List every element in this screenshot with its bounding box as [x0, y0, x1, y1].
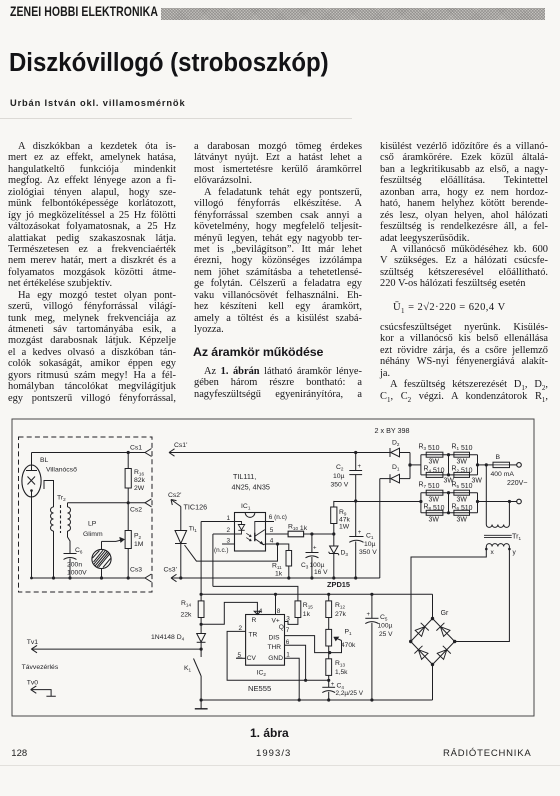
potentiometer P1 470k [326, 629, 332, 646]
svg-text:IC1: IC1 [241, 503, 251, 511]
pin 4 wire [266, 543, 278, 545]
svg-text:200n: 200n [67, 562, 82, 569]
node Cs1p / HV rail [169, 449, 175, 456]
wire pin1 GND [285, 658, 300, 700]
svg-text:1N4148 D4: 1N4148 D4 [151, 634, 185, 642]
svg-text:3W: 3W [472, 477, 483, 484]
svg-text:3W: 3W [429, 517, 440, 524]
svg-text:2,2µ/25 V: 2,2µ/25 V [336, 690, 364, 697]
svg-text:4N25, 4N35: 4N25, 4N35 [232, 483, 270, 492]
svg-text:R9: R9 [339, 509, 347, 517]
dashed lamp-unit box [19, 437, 153, 592]
svg-text:R11: R11 [272, 563, 282, 571]
svg-text:1000V: 1000V [67, 570, 87, 577]
pin 3 stub (n.c.) [222, 543, 235, 545]
mains transformer Tr1 [485, 465, 487, 525]
mains terminal 1 [517, 463, 522, 468]
wire [101, 569, 103, 578]
wire bridge plus to 12V rail [432, 594, 434, 618]
svg-text:350 V: 350 V [359, 549, 377, 556]
svg-text:C3: C3 [301, 562, 309, 570]
svg-text:C6: C6 [75, 547, 83, 555]
svg-text:220V~: 220V~ [507, 480, 527, 487]
resistor R9 47k 1W [333, 501, 335, 507]
svg-text:R15: R15 [303, 602, 313, 610]
svg-text:R6 510: R6 510 [452, 504, 473, 513]
svg-text:+: + [358, 530, 362, 536]
svg-text:3W: 3W [457, 458, 468, 465]
svg-text:R14: R14 [181, 600, 191, 608]
node Cs2 [68, 502, 146, 504]
svg-text:1W: 1W [339, 524, 350, 531]
resistor R12 27k [328, 594, 330, 601]
capacitor C3 100µ 16V [311, 534, 313, 553]
svg-text:47k: 47k [339, 517, 351, 524]
svg-text:C5: C5 [380, 614, 388, 622]
capacitor C1 10µ 350V [354, 499, 357, 502]
svg-text:1: 1 [286, 652, 290, 659]
column 1 [8, 141, 176, 404]
trigger electrode wire [44, 481, 54, 508]
svg-text:2W: 2W [134, 485, 145, 492]
svg-text:3: 3 [286, 616, 290, 623]
svg-text:3W: 3W [429, 496, 440, 503]
resistor R16 82k 2W [125, 469, 131, 489]
svg-text:BL: BL [40, 457, 49, 464]
resistor bank group 1: R3 R1 / R4 R2 (510 ohm 3W) [421, 454, 478, 456]
svg-text:D3: D3 [341, 550, 349, 558]
wire D1 to 0V rail [379, 479, 381, 578]
svg-text:4: 4 [270, 537, 274, 544]
node Tv1 remote input [31, 645, 37, 652]
svg-text:+: + [313, 546, 317, 552]
svg-text:16 V: 16 V [314, 569, 328, 576]
ground symbol [200, 700, 202, 709]
pin 5 wire [266, 533, 289, 535]
capacitor C2 10µ 350V [354, 451, 357, 454]
bridge diode lower-left [418, 650, 428, 660]
svg-text:LP: LP [88, 521, 97, 528]
svg-text:Tv0: Tv0 [27, 680, 39, 687]
switch K1 [200, 649, 202, 657]
svg-text:R: R [252, 617, 257, 624]
zener D3 ZPD15 [333, 534, 335, 546]
capacitor C6 200n 1000V [64, 553, 77, 555]
node Cs1 [32, 452, 146, 454]
svg-text:Villanócső: Villanócső [46, 467, 77, 474]
pin 6 stub (n.c) [266, 521, 275, 523]
svg-text:22k: 22k [181, 612, 193, 619]
pin5 CV stub [236, 657, 246, 659]
svg-text:D1: D1 [392, 464, 400, 472]
svg-text:x: x [491, 549, 495, 556]
svg-text:CV: CV [247, 655, 257, 662]
node Cs3 / bottom rail [32, 577, 146, 579]
svg-text:Cs2: Cs2 [130, 507, 142, 514]
wire pin6 THR [285, 645, 306, 680]
svg-text:R13: R13 [335, 660, 345, 668]
svg-text:Glimm: Glimm [83, 531, 103, 538]
svg-text:3: 3 [226, 537, 230, 544]
svg-text:R5 510: R5 510 [452, 482, 473, 491]
bridge diode upper-right [440, 627, 450, 637]
svg-text:+: + [367, 612, 371, 618]
svg-text:Cs3': Cs3' [164, 567, 177, 574]
svg-text:K1: K1 [184, 665, 192, 673]
svg-text:Tr2: Tr2 [57, 495, 66, 503]
svg-text:R16: R16 [134, 469, 144, 477]
svg-text:TIC126: TIC126 [184, 503, 208, 512]
12V supply rail [201, 593, 432, 595]
svg-text:Tr1: Tr1 [512, 532, 522, 542]
svg-text:R2 510: R2 510 [452, 466, 473, 475]
title [9, 49, 329, 78]
svg-text:THR: THR [268, 644, 282, 651]
svg-text:5: 5 [270, 527, 274, 534]
bridge diode lower-right [437, 650, 447, 660]
svg-text:NE555: NE555 [248, 684, 271, 693]
wire [410, 464, 421, 466]
diode D2 [356, 452, 390, 454]
footer [11, 748, 27, 759]
svg-text:3W: 3W [429, 458, 440, 465]
svg-text:Tv1: Tv1 [27, 639, 39, 646]
wire neutral run [334, 501, 421, 503]
svg-text:+: + [331, 682, 335, 688]
resistor bank group 2: R7 R5 / R8 R6 (510 ohm 3W) [421, 492, 478, 494]
svg-text:3W: 3W [457, 496, 468, 503]
svg-text:P2: P2 [134, 533, 142, 541]
capacitor C4 2,2µ/25V [328, 680, 330, 687]
svg-text:R3 510: R3 510 [419, 444, 440, 453]
pin 1 wire [201, 521, 234, 523]
svg-text:B: B [496, 454, 501, 461]
svg-text:100µ: 100µ [378, 622, 393, 629]
mains terminal 2 [517, 499, 522, 504]
author [10, 98, 185, 108]
svg-text:TIL111,: TIL111, [233, 472, 256, 481]
wire pin2 TR [227, 631, 329, 680]
diode D1 [380, 478, 390, 480]
svg-text:ZPD15: ZPD15 [327, 580, 350, 589]
svg-text:2 x BY 398: 2 x BY 398 [375, 426, 410, 435]
header strip [10, 4, 158, 19]
svg-text:1: 1 [226, 515, 230, 522]
wire pin3 Q to R15 [285, 618, 298, 625]
figure caption [250, 726, 289, 740]
svg-text:Cs2': Cs2' [168, 492, 181, 499]
ground-side rail Cs3p [171, 574, 177, 581]
flash tube BL (Villanócső) [22, 465, 41, 497]
svg-text:8: 8 [277, 608, 281, 615]
wire secondary x to bridge [411, 547, 486, 642]
svg-text:DIS: DIS [269, 634, 281, 641]
wire [68, 531, 71, 554]
svg-text:1M: 1M [134, 541, 144, 548]
wire pin8 V+ [275, 594, 277, 614]
svg-text:y: y [513, 549, 517, 556]
fuse B 400mA [493, 462, 510, 467]
svg-text:R7 510: R7 510 [419, 482, 440, 491]
node Cs2p [171, 500, 177, 506]
svg-text:Ti1: Ti1 [189, 526, 197, 534]
pin 2 wire [213, 533, 235, 535]
svg-text:+: + [358, 464, 362, 470]
svg-text:1,5k: 1,5k [335, 669, 348, 676]
wire R14 to pin4 reset [201, 602, 257, 624]
ground rail [201, 699, 432, 701]
svg-text:400 mA: 400 mA [491, 471, 515, 478]
capacitor C5 100µ 25V [371, 594, 373, 618]
svg-text:D2: D2 [392, 439, 400, 447]
svg-text:2: 2 [226, 527, 230, 534]
svg-text:2: 2 [239, 625, 243, 632]
glow lamp LP (Glimm) [92, 549, 111, 568]
svg-text:470k: 470k [341, 642, 356, 649]
column 2 [194, 141, 362, 335]
svg-text:IC2: IC2 [257, 669, 267, 677]
svg-text:R10 1k: R10 1k [288, 523, 308, 532]
wire [67, 503, 69, 507]
svg-text:82k: 82k [134, 477, 146, 484]
svg-text:R12: R12 [335, 602, 345, 610]
wire pin7 DIS [285, 636, 330, 653]
resistor R15 1k [213, 586, 298, 601]
svg-text:25 V: 25 V [379, 631, 393, 638]
svg-text:Cs3: Cs3 [130, 567, 142, 574]
svg-text:6: 6 [286, 639, 290, 646]
svg-text:1k: 1k [275, 571, 283, 578]
resistor R11 1k [276, 542, 279, 545]
svg-text:C2: C2 [336, 464, 344, 472]
svg-text:P1: P1 [345, 629, 353, 637]
svg-text:(n.c.): (n.c.) [214, 547, 229, 554]
svg-text:TR: TR [249, 632, 258, 639]
resistor R10 1k [288, 531, 304, 537]
potentiometer P2 1M [125, 531, 131, 549]
wire [53, 531, 55, 578]
svg-text:Távvezérlés: Távvezérlés [22, 664, 59, 671]
svg-text:Q: Q [279, 624, 284, 631]
svg-text:7: 7 [286, 627, 290, 634]
svg-text:350 V: 350 V [331, 481, 349, 488]
svg-text:GND: GND [268, 655, 283, 662]
svg-text:Cs1': Cs1' [174, 442, 187, 449]
svg-text:1k: 1k [303, 611, 311, 618]
svg-text:27k: 27k [335, 611, 347, 618]
svg-text:3W: 3W [457, 517, 468, 524]
wire diode join [409, 453, 411, 479]
svg-text:C4: C4 [337, 683, 345, 691]
svg-text:6 (n.c): 6 (n.c) [269, 514, 287, 521]
svg-text:C1: C1 [366, 533, 374, 541]
wire bridge minus to ground rail [432, 665, 434, 701]
wire secondary y to bridge [455, 547, 509, 642]
diode D4 1N4148 [200, 624, 202, 633]
svg-text:R1 510: R1 510 [452, 444, 473, 453]
column 3 [380, 141, 548, 290]
svg-text:10µ: 10µ [364, 541, 376, 548]
svg-text:Cs1: Cs1 [130, 445, 142, 452]
trigger transformer Tr2 [51, 507, 54, 531]
figure frame [12, 419, 534, 716]
svg-text:10µ: 10µ [333, 473, 345, 480]
IC1 internals: LED + phototransistor [235, 522, 242, 525]
svg-text:Gr: Gr [441, 610, 449, 617]
wire thyristor gate [185, 544, 278, 561]
resistor R13 1,5k [328, 646, 330, 659]
resistor R14 22k [200, 594, 202, 601]
bridge diode upper-left [415, 627, 425, 637]
wire to P2 wiper [102, 540, 117, 542]
timer IC2 NE555 [246, 615, 285, 666]
